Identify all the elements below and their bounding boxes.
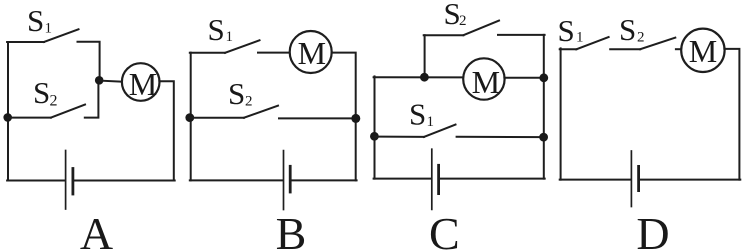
label S1 (D) (558, 13, 584, 48)
wire: A battery to bottom right corner (74, 180, 175, 182)
wire: C battery to bottom right corner (440, 178, 545, 180)
svg-text:1: 1 (45, 21, 53, 37)
wire: C top horizontal to switch S2 (424, 34, 464, 36)
battery (C) short plate (437, 165, 440, 193)
switch S1 (D) contact (610, 48, 640, 50)
svg-text:M: M (472, 64, 500, 100)
switch S1 (C) blade (424, 125, 456, 137)
switch S2 (A) blade (51, 105, 85, 118)
wire: A top horizontal to switch S1 (7, 41, 44, 43)
node dot: B left junction of S2 branch (185, 113, 194, 122)
wire: C bottom left to battery (374, 178, 431, 180)
svg-text:1: 1 (576, 30, 584, 46)
switch S2 (B) blade (244, 106, 278, 118)
battery (B) long plate (283, 151, 285, 210)
motor M (D) circle (681, 29, 724, 72)
wire: B top horizontal to switch S1 (190, 52, 225, 54)
svg-text:1: 1 (427, 114, 435, 130)
label S1 (C) (409, 96, 434, 131)
wire: A bottom left to battery (7, 180, 65, 182)
switch S2 (A) contact and wire up to node (85, 81, 99, 118)
svg-text:S: S (228, 76, 245, 111)
wire: C right vertical full height (543, 35, 545, 179)
wire: C S1 branch from left node (375, 136, 424, 138)
switch S1 (A) contact and wire down to node (78, 42, 100, 80)
switch S1 (B) contact to motor (258, 52, 291, 54)
svg-text:2: 2 (245, 93, 253, 109)
motor M (C) circle (463, 58, 504, 99)
wire: B bottom left to battery (190, 179, 283, 181)
node dot: A junction above motor branch (95, 76, 104, 85)
wire: C S2 branch left vertical (424, 35, 426, 77)
battery (D) long plate (630, 151, 632, 207)
switch S2 (D) blade (640, 38, 675, 50)
switch S2 (D) contact to motor (676, 48, 682, 50)
switch S1 (D) blade (576, 37, 608, 49)
node dot: C S1 branch right junction (539, 133, 548, 142)
wire: D battery to bottom right corner (640, 179, 741, 181)
motor M (A) circle (122, 63, 160, 101)
wire: B S2 branch from left node (190, 117, 244, 119)
wire: D bottom left to battery (560, 179, 631, 181)
wire: A motor to right vertical down to bottom (159, 81, 173, 180)
wire: B battery to bottom right corner (291, 179, 356, 181)
node dot: C rail left junction (420, 73, 429, 82)
wire: A S2 branch from left node (8, 117, 51, 119)
label S1 (B) (208, 12, 234, 47)
label S2 (A) (33, 75, 58, 110)
battery (A) long plate (65, 151, 67, 210)
svg-text:S: S (27, 3, 44, 38)
svg-text:S: S (33, 75, 50, 110)
svg-text:D: D (636, 208, 669, 250)
svg-text:A: A (80, 208, 113, 250)
node dot: B right junction of S2 branch (351, 114, 360, 123)
svg-text:1: 1 (226, 29, 234, 45)
switch S1 (B) blade (225, 40, 260, 53)
wire: A left vertical (7, 42, 9, 181)
node dot: A junction of S2 branch on left rail (3, 113, 12, 122)
switch S2 (C) blade (463, 21, 499, 36)
svg-text:S: S (558, 13, 575, 48)
wire: B motor to right vertical down to bottom (332, 53, 356, 181)
battery (A) short plate (72, 169, 75, 195)
switch S2 (C) contact to right vertical (498, 34, 545, 36)
svg-text:C: C (429, 208, 460, 250)
switch S1 (C) contact to right node (457, 136, 544, 138)
svg-text:B: B (276, 208, 307, 250)
wire: C left vertical (374, 76, 376, 178)
battery (C) long plate (431, 149, 433, 209)
wire: C motor rail left section (374, 76, 464, 78)
wire: C motor rail right section (504, 77, 543, 79)
motor M (B) circle (290, 31, 332, 73)
svg-text:M: M (689, 33, 717, 69)
wire: D motor to right vertical down to bottom (724, 49, 739, 180)
wire: D left vertical (560, 48, 562, 179)
svg-text:M: M (298, 35, 326, 71)
wire: A node to motor (99, 81, 122, 82)
svg-text:2: 2 (637, 29, 645, 45)
label S2 (D) (619, 12, 645, 47)
svg-text:S: S (208, 12, 225, 47)
svg-text:S: S (619, 12, 636, 47)
node dot: C rail right junction (539, 73, 548, 82)
svg-text:2: 2 (459, 13, 467, 29)
label S2 (B) (228, 76, 253, 111)
svg-text:S: S (409, 96, 426, 131)
wire: B left vertical (190, 53, 192, 181)
node dot: C S1 branch left junction (370, 132, 379, 141)
switch S2 (B) contact to right node (279, 117, 356, 119)
wire: D top horizontal to switch S1 (560, 48, 577, 50)
svg-text:M: M (129, 66, 157, 102)
label S1 (A) (27, 3, 52, 38)
battery (D) short plate (637, 166, 640, 190)
label S2 (C) (444, 0, 467, 31)
svg-text:2: 2 (50, 92, 58, 109)
battery (B) short plate (289, 166, 292, 192)
switch S1 (A) blade (44, 29, 79, 42)
